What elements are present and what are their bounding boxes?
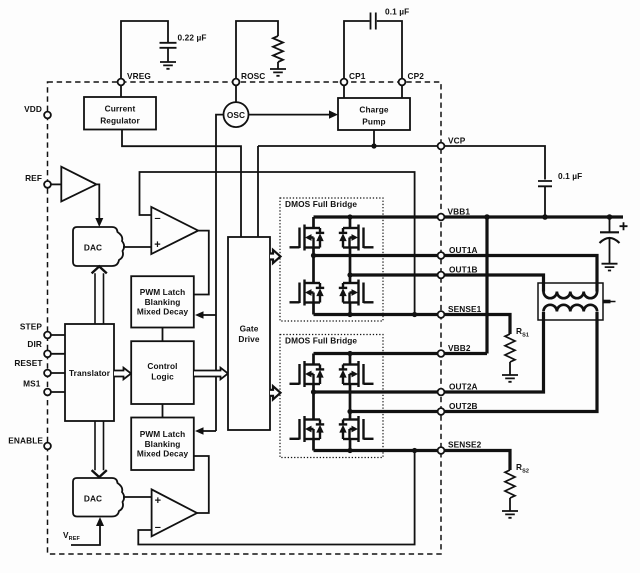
pin VREG (118, 79, 125, 86)
svg-text:CP1: CP1 (349, 71, 366, 81)
svg-text:PWM Latch: PWM Latch (140, 429, 186, 439)
pin OUT1B (438, 272, 445, 279)
svg-text:ROSC: ROSC (241, 71, 265, 81)
ground (Rs2) (502, 511, 518, 518)
junction charge pump output (371, 143, 376, 148)
DMOS Full Bridge 2 dotted box (280, 335, 383, 458)
bus translator to DAC2 (95, 421, 104, 470)
transistor Q1B high-side right (357, 225, 359, 251)
svg-text:ENABLE: ENABLE (8, 436, 43, 446)
svg-text:VBB2: VBB2 (448, 343, 471, 353)
svg-text:Regulator: Regulator (100, 116, 140, 126)
wire comparator1 - feedback to SENSE1 (140, 172, 415, 315)
junction dots bridge 2 (347, 351, 352, 356)
svg-text:Blanking: Blanking (145, 297, 181, 307)
transistor Q1D low-side right (357, 280, 359, 306)
op-amp REF buffer (61, 167, 96, 202)
wire MS1 to translator (48, 391, 66, 393)
svg-text:Gate: Gate (240, 324, 259, 334)
bridge 2 bottom rail connects (312, 439, 315, 451)
svg-text:VBB1: VBB1 (448, 207, 471, 217)
svg-text:Control: Control (147, 361, 177, 371)
svg-text:–: – (155, 522, 161, 534)
wire VBB1 rail (314, 215, 624, 218)
capacitor 0.22uF (160, 43, 177, 48)
pin SENSE1 (438, 311, 445, 318)
svg-text:0.22 µF: 0.22 µF (178, 33, 207, 43)
arrow OSC to PWM latch 2 (203, 430, 216, 432)
svg-text:Blanking: Blanking (145, 439, 181, 449)
transistor Q2B high-side right (357, 361, 359, 387)
DAC U2 (73, 478, 124, 517)
DMOS Full Bridge 1 dotted box (280, 198, 383, 321)
wire charge pump CP1 CP2 stubs (344, 82, 402, 98)
wire RESET to translator (48, 372, 66, 374)
capacitor electrolytic bulk (609, 218, 611, 232)
pin SENSE2 (438, 447, 445, 454)
ground (ROSC resistor) (270, 69, 286, 76)
svg-text:OUT2B: OUT2B (449, 401, 478, 411)
svg-text:SENSE1: SENSE1 (448, 304, 482, 314)
motor winding 2 (544, 305, 598, 312)
wire CP1 to 0.1uF cap (344, 21, 370, 82)
wire SENSE1 to Rs1 (314, 315, 511, 335)
pin CP1 (341, 79, 348, 86)
svg-text:DIR: DIR (27, 339, 42, 349)
ground (0.22uF cap) (160, 62, 176, 69)
wire ROSC to resistor (236, 21, 278, 82)
wire ROSC pin to OSC (235, 82, 237, 102)
bridge 2 phase wires (312, 384, 315, 420)
wire VREG pin to Current Regulator (120, 82, 122, 97)
wire OSC down to PWM latches (216, 115, 224, 431)
junction feedback SENSE2 (412, 448, 417, 453)
bridge 2 top rail wire (312, 354, 315, 365)
chip boundary dashed box (48, 82, 442, 554)
junction dots bridge 1 (347, 214, 352, 219)
pin CP2 (399, 79, 406, 86)
transistor Q2A high-side left (303, 361, 305, 387)
svg-text:Charge: Charge (359, 105, 388, 115)
wire VBB2 from VBB1 (314, 217, 488, 354)
arrow gate drive to bridge 2 (270, 386, 281, 399)
svg-text:Current: Current (105, 104, 136, 114)
ground (bulk cap) (602, 264, 618, 271)
wire DAC2 to comparator2 + (123, 496, 151, 498)
svg-text:–: – (154, 213, 160, 225)
junction feedback SENSE1 (412, 312, 417, 317)
block Current Regulator (84, 97, 156, 130)
wire PWM1 to control logic (162, 328, 164, 342)
arrow gate drive to bridge 1 (270, 250, 281, 263)
capacitor 0.1uF (charge pump) (371, 13, 376, 30)
pin DIR (44, 350, 51, 357)
svg-text:CP2: CP2 (408, 71, 425, 81)
wire OUT1A (314, 256, 598, 292)
svg-text:SENSE2: SENSE2 (448, 440, 482, 450)
wire VREG to 0.22uF cap (121, 21, 168, 82)
bridge 1 top rail wire (312, 217, 315, 228)
wire OUT1B (350, 275, 544, 292)
svg-text:DAC: DAC (84, 494, 102, 504)
wire STEP to translator (48, 334, 66, 336)
pin ENABLE (44, 443, 51, 450)
pin VBB2 (438, 350, 445, 357)
block Gate Drive (228, 237, 270, 430)
svg-text:MS1: MS1 (23, 379, 41, 389)
svg-text:RESET: RESET (14, 358, 42, 368)
op-amp comparator 2 (152, 489, 197, 536)
svg-text:Mixed Decay: Mixed Decay (137, 307, 189, 317)
wire comparator2 - feedback to SENSE2 (138, 451, 414, 545)
resistor Rs1 (505, 334, 515, 362)
resistor Rs2 (505, 470, 515, 498)
svg-text:DMOS Full Bridge: DMOS Full Bridge (285, 336, 357, 346)
svg-text:Translator: Translator (69, 368, 111, 378)
motor winding 1 (544, 292, 598, 299)
svg-text:OUT2A: OUT2A (449, 382, 478, 392)
transistor Q1A high-side left (303, 225, 305, 251)
svg-text:0.1 µF: 0.1 µF (385, 7, 409, 17)
block PWM Latch 2 (131, 418, 194, 471)
arrow OSC to PWM latch 1 (203, 314, 216, 316)
bridge 1 phase wires (312, 248, 315, 284)
svg-text:Mixed Decay: Mixed Decay (137, 449, 189, 459)
bridge 1 bottom rail connects (312, 303, 315, 315)
transistor Q1C low-side left (303, 280, 305, 306)
wire control logic to PWM2 (162, 404, 164, 418)
wire charge pump output to VCP (373, 130, 375, 146)
ground (Rs1) (502, 375, 518, 382)
DAC U1 (73, 227, 124, 266)
pin OUT2B (438, 408, 445, 415)
wire DAC1 to comparator + (123, 246, 151, 248)
wire REF pin to buffer (48, 183, 62, 185)
svg-text:Logic: Logic (151, 372, 174, 382)
junction dots VBB1 rail (484, 214, 490, 220)
wire DIR to translator (48, 353, 66, 355)
wire SENSE2 to Rs2 (314, 451, 511, 471)
plus sign (620, 222, 628, 230)
pin RESET (44, 370, 51, 377)
block PWM Latch 1 (131, 276, 194, 327)
pin STEP (44, 332, 51, 339)
svg-text:Drive: Drive (238, 334, 260, 344)
svg-text:OUT1A: OUT1A (449, 245, 478, 255)
pin MS1 (44, 389, 51, 396)
svg-text:VDD: VDD (24, 104, 42, 114)
svg-text:OSC: OSC (227, 110, 245, 120)
pin VDD (44, 112, 51, 119)
svg-text:Pump: Pump (362, 117, 385, 127)
svg-text:OUT1B: OUT1B (449, 265, 478, 275)
wire VREF into DAC2 with arrow (71, 525, 100, 545)
wire VCP to 0.1uF cap right (441, 146, 545, 180)
block Control Logic (131, 341, 194, 404)
wire OUT2B (350, 312, 597, 412)
pin OUT2A (438, 389, 445, 396)
transistor Q2D low-side right (357, 416, 359, 442)
wire OUT2A (314, 312, 544, 392)
op-amp OSC circle (224, 102, 249, 127)
wire buffer to DAC1 with arrow (96, 184, 99, 218)
bus translator to DAC1 (95, 273, 104, 324)
wire OSC to charge pump with arrow (249, 114, 330, 116)
capacitor 0.1uF (VCP) (538, 181, 552, 186)
svg-text:DMOS Full Bridge: DMOS Full Bridge (285, 199, 357, 209)
wire current regulator to gate drive supply (122, 130, 241, 238)
resistor ROSC (273, 36, 283, 62)
svg-text:VREG: VREG (127, 71, 151, 81)
op-amp comparator 1 (151, 207, 198, 254)
svg-text:STEP: STEP (20, 322, 42, 332)
block Charge Pump (338, 98, 410, 130)
motor shaft (603, 300, 611, 304)
pin VBB1 (438, 214, 445, 221)
pin VCP (438, 143, 445, 150)
wire comparator2 output to PWM latch 2 (194, 456, 209, 513)
arrow translator to control logic (114, 368, 131, 380)
transistor Q2C low-side left (303, 416, 305, 442)
stepper motor box (538, 283, 603, 320)
block Translator (65, 324, 114, 421)
pin OUT1A (438, 252, 445, 259)
svg-text:+: + (154, 239, 160, 251)
svg-text:VCP: VCP (448, 136, 466, 146)
svg-text:PWM Latch: PWM Latch (140, 287, 186, 297)
wire comparator1 output to PWM latch 1 (194, 231, 209, 295)
arrow control logic to gate drive (194, 368, 228, 380)
svg-text:REF: REF (25, 173, 42, 183)
svg-text:+: + (155, 495, 161, 507)
pin ROSC (233, 79, 240, 86)
svg-text:0.1 µF: 0.1 µF (558, 171, 582, 181)
svg-text:DAC: DAC (84, 243, 102, 253)
wire cap to CP2 (377, 21, 402, 82)
pin REF (44, 181, 51, 188)
